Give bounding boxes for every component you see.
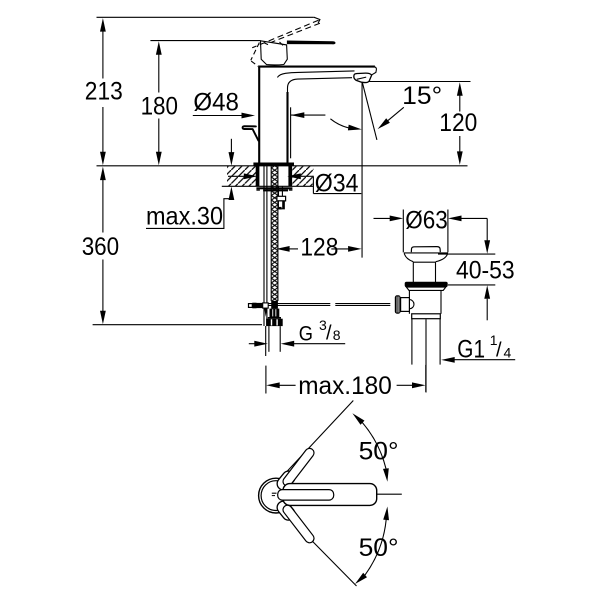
dimension Ø63 bbox=[374, 207, 488, 253]
svg-text:180: 180 bbox=[141, 92, 178, 120]
svg-text:Ø34: Ø34 bbox=[315, 170, 359, 198]
drain lower body bbox=[409, 290, 441, 313]
pop-up rod lever hook bbox=[243, 126, 259, 140]
dimension 213 bbox=[85, 18, 123, 165]
pull rod clamp bbox=[249, 303, 269, 317]
hose nipple right bbox=[277, 186, 286, 209]
angle ray upper bbox=[281, 401, 353, 478]
deck hatch left bbox=[227, 166, 256, 186]
svg-text:G1: G1 bbox=[457, 336, 485, 364]
drain plug bbox=[411, 247, 440, 253]
pivot ring bbox=[259, 478, 294, 513]
drain centerline bbox=[425, 319, 427, 392]
flexible hose bbox=[269, 326, 280, 352]
pull rod below deck bbox=[264, 166, 267, 356]
center ray horizontal bbox=[377, 493, 402, 495]
faucet lever raised (dashed) bbox=[251, 17, 320, 66]
svg-text:/: / bbox=[326, 322, 332, 344]
shank end block bbox=[271, 301, 278, 309]
linkage rod horizontal bbox=[268, 304, 390, 306]
dimension 128 bbox=[276, 233, 362, 261]
dimension 15 degrees bbox=[330, 82, 442, 140]
dimension Ø34 with label box bbox=[228, 169, 361, 198]
dimension 40-53 bbox=[438, 218, 515, 320]
drain rod connector bbox=[401, 298, 414, 312]
360 bottom reference line bbox=[93, 324, 262, 326]
50 degree arc upper bbox=[352, 413, 398, 481]
deck bottom line bbox=[222, 185, 314, 187]
drain seal ring bbox=[405, 282, 448, 287]
svg-text:8: 8 bbox=[333, 327, 341, 343]
threaded shank bbox=[271, 166, 278, 301]
svg-text:G: G bbox=[299, 322, 313, 346]
lever neck bbox=[261, 41, 288, 65]
svg-text:120: 120 bbox=[439, 109, 477, 137]
faucet lever rest (solid bar) bbox=[287, 41, 336, 45]
50 degree arc lower bbox=[355, 507, 399, 585]
svg-text:Ø48: Ø48 bbox=[193, 89, 239, 117]
svg-text:/: / bbox=[496, 340, 502, 362]
aerator bbox=[354, 73, 372, 82]
svg-text:50°: 50° bbox=[359, 534, 399, 562]
dimension max.180 bbox=[266, 365, 426, 400]
svg-text:max.180: max.180 bbox=[298, 372, 392, 400]
pivot circle disc bbox=[258, 477, 294, 513]
spout vertical reference line bbox=[361, 82, 363, 258]
svg-text:max.30: max.30 bbox=[146, 203, 223, 231]
dimension 360 bbox=[82, 167, 120, 325]
dimension max.30 bbox=[146, 139, 234, 231]
svg-text:213: 213 bbox=[85, 78, 123, 106]
drain tailpipe bbox=[412, 319, 440, 365]
drain upper body bbox=[413, 262, 435, 282]
base plate bbox=[253, 163, 294, 166]
lower rotated handle bbox=[284, 508, 310, 539]
mounting nut bbox=[263, 189, 288, 191]
dimension Ø48 bbox=[193, 89, 326, 159]
svg-text:50°: 50° bbox=[359, 437, 399, 465]
drain collar bbox=[412, 314, 441, 319]
upper rotated handle bbox=[284, 453, 310, 484]
shank collar band bbox=[268, 317, 281, 319]
dimension G1 1/4 bbox=[441, 332, 515, 363]
deck hatch right bbox=[289, 166, 314, 186]
svg-text:15°: 15° bbox=[402, 82, 442, 110]
knurled section bbox=[270, 309, 280, 317]
dimension 120 bbox=[363, 82, 478, 165]
svg-text:4: 4 bbox=[504, 345, 512, 361]
horseshoe washer bbox=[256, 187, 292, 190]
reference line top (213) bbox=[97, 16, 314, 18]
handle bar center position bbox=[278, 484, 377, 506]
svg-text:Ø63: Ø63 bbox=[405, 207, 448, 235]
drain knurled knob bbox=[395, 295, 401, 313]
angle ray lower bbox=[283, 511, 357, 586]
faucet body bbox=[258, 67, 376, 163]
hose nut bbox=[266, 319, 283, 326]
dimension 180 bbox=[141, 41, 178, 165]
drain sub flange bbox=[406, 287, 446, 290]
mounting bars in deck hole bbox=[256, 166, 292, 186]
svg-text:360: 360 bbox=[82, 233, 120, 261]
svg-text:40-53: 40-53 bbox=[456, 256, 515, 284]
deck top line bbox=[97, 165, 468, 167]
logo mark in pivot bbox=[272, 493, 277, 495]
svg-text:128: 128 bbox=[300, 233, 338, 261]
drain flange bbox=[404, 253, 448, 262]
reference line lever (180) bbox=[150, 40, 260, 42]
dimension G3/8 bbox=[249, 317, 345, 346]
